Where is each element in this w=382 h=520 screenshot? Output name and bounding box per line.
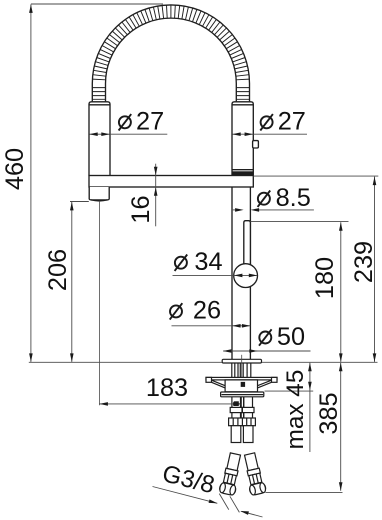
- spout centerline extension: [98, 201, 100, 405]
- svg-text:27: 27: [136, 108, 164, 136]
- svg-text:460: 460: [1, 148, 29, 190]
- svg-text:239: 239: [350, 241, 378, 283]
- spout outlet piece: [89, 187, 109, 200]
- dimension 239 extension line at bar top: [253, 175, 378, 177]
- bracket right wing: [258, 380, 272, 386]
- right hose hex nut: [242, 418, 255, 426]
- bracket set screw: [241, 382, 245, 387]
- left hose end segment: [231, 426, 241, 443]
- svg-text:16: 16: [127, 195, 155, 223]
- dimension text diameter 27 right: [261, 116, 273, 128]
- dimension text diameter 27 left: [119, 116, 131, 128]
- svg-text:max 45: max 45: [282, 370, 309, 450]
- dimension diameter 27 left arrows: [89, 133, 109, 135]
- thread G3/8 opposing arrow: [241, 511, 262, 517]
- dimension 16 line: [155, 164, 157, 227]
- dimension text diameter 26: [170, 305, 182, 317]
- svg-text:183: 183: [146, 374, 188, 402]
- right spray head tube: [232, 102, 253, 176]
- right supply hose upper: [243, 397, 245, 408]
- left supply hose upper: [231, 397, 233, 408]
- left angled hose fitting G3/8: [219, 452, 243, 495]
- dimension diameter 34 leader: [173, 274, 234, 276]
- svg-text:26: 26: [193, 297, 221, 325]
- dimension arrows for diameter 34: [234, 274, 257, 276]
- svg-text:27: 27: [278, 108, 306, 136]
- dimension text diameter 8.5: [258, 193, 270, 205]
- dimension max 45 line: [309, 363, 311, 452]
- dimension 385 extension line bottom: [266, 492, 343, 494]
- aerator ring line: [232, 169, 253, 171]
- right angled hose fitting G3/8: [242, 452, 267, 496]
- thread G3/8 extension tick 1: [219, 494, 229, 510]
- countertop line: [29, 361, 378, 363]
- left hose mid section: [231, 413, 233, 418]
- vertical centerline of column: [241, 355, 243, 378]
- svg-text:385: 385: [315, 392, 343, 434]
- dimension diameter 27 right arrows: [232, 133, 253, 135]
- dimension max 45 extension line: [265, 390, 314, 392]
- svg-text:50: 50: [277, 323, 305, 351]
- left spout tube: [89, 102, 110, 176]
- dimension diameter 50 line: [223, 350, 310, 352]
- dimension text diameter 50: [259, 332, 271, 344]
- dimension diameter 26 arrows: [232, 325, 250, 327]
- bracket right end cap: [272, 377, 278, 382]
- aerator dark band: [232, 171, 253, 175]
- dimension 460 extension line top: [31, 3, 163, 5]
- bracket left end cap: [206, 377, 212, 382]
- bracket center block: [225, 380, 257, 392]
- handle ball joint: [234, 264, 258, 288]
- dimension 206 extension line: [70, 201, 89, 203]
- mounting nut: [221, 392, 264, 397]
- threaded stud pair: [240, 397, 242, 419]
- horizontal spout bar: [89, 176, 253, 188]
- dimension diameter 27 left leader: [110, 133, 167, 135]
- thread G3/8 extension tick 2: [230, 496, 240, 512]
- dimension 183 line: [99, 403, 241, 405]
- svg-text:206: 206: [44, 249, 72, 291]
- dimension 460 line: [30, 4, 32, 362]
- right hose mid section: [243, 413, 245, 418]
- handle lever rod: [244, 221, 251, 266]
- right hose end segment: [243, 426, 253, 443]
- svg-text:180: 180: [311, 257, 339, 299]
- left hose collar: [230, 407, 242, 412]
- thread G3/8 leader line: [153, 487, 218, 504]
- flexible spring hose coil: [92, 5, 249, 102]
- base escutcheon disc: [222, 359, 261, 363]
- faucet body column: [231, 187, 233, 360]
- dimension diameter 27 right leader: [253, 133, 307, 135]
- dimension 206 line: [71, 202, 73, 362]
- svg-text:8.5: 8.5: [276, 184, 311, 212]
- left hose marker block: [234, 401, 239, 406]
- dimension text diameter 34: [175, 257, 187, 269]
- dimension diameter 26 leader: [172, 325, 233, 327]
- shank tubes below deck: [231, 363, 233, 377]
- svg-text:34: 34: [194, 248, 222, 276]
- right hose collar: [242, 407, 254, 412]
- dimension 385 line: [340, 363, 342, 491]
- dimension 239 line: [374, 177, 376, 362]
- spray head button: [253, 141, 259, 148]
- dimension 180 line: [340, 222, 342, 362]
- dimension diameter 8.5 arrows: [233, 209, 236, 211]
- mounting bracket top plate: [206, 377, 277, 380]
- bracket left wing: [212, 380, 226, 386]
- dimension 180 extension line at rod top: [250, 221, 348, 223]
- left hose hex nut: [229, 418, 243, 426]
